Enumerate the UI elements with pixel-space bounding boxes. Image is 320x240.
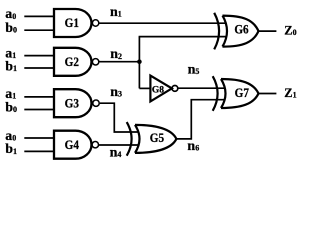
wire n2 vertical from G6 branch down to G8 branch bbox=[138, 37, 140, 89]
wire a1 to G2 bbox=[24, 55, 54, 57]
wire z0 output bbox=[259, 30, 277, 32]
svg-text:G3: G3 bbox=[65, 95, 80, 110]
svg-text:G8: G8 bbox=[152, 85, 164, 95]
wire n5 from G8 to G7 upper input bbox=[178, 87, 225, 89]
wire z1 output bbox=[259, 93, 277, 95]
XOR gate G7 bbox=[213, 76, 259, 111]
svg-text:G2: G2 bbox=[65, 54, 79, 69]
wire junction down to G8 input bbox=[139, 87, 150, 89]
wire a0 to G4 bbox=[24, 137, 54, 139]
wire b0 to G1 bbox=[24, 29, 54, 31]
junction dot on n2 bbox=[137, 59, 142, 64]
NAND gate G2 bbox=[54, 48, 99, 76]
svg-text:G5: G5 bbox=[150, 130, 165, 145]
NAND gate G3 bbox=[54, 89, 99, 117]
svg-text:G6: G6 bbox=[234, 21, 249, 36]
wire n6 from G5 output up to G7 lower input bbox=[176, 100, 224, 139]
wire n4 from G4 to G5 lower input bbox=[99, 144, 139, 146]
wire b0 to G3 bbox=[24, 109, 54, 111]
wire n3 from G3 right then down to G5 top input bbox=[100, 103, 139, 132]
NAND gate G1 bbox=[54, 9, 99, 37]
wire n2 from G2 to junction bbox=[99, 61, 139, 63]
svg-text:G7: G7 bbox=[235, 85, 250, 100]
NAND gate G4 bbox=[54, 131, 99, 159]
wire n1 from G1 to G6 upper input bbox=[99, 22, 226, 24]
wire b1 to G4 bbox=[24, 150, 54, 152]
svg-text:G1: G1 bbox=[65, 15, 79, 30]
inverter G8 bbox=[150, 76, 177, 102]
XOR gate G5 bbox=[127, 122, 177, 156]
svg-text:G4: G4 bbox=[65, 137, 80, 152]
wire a0 to G1 bbox=[24, 15, 54, 17]
XOR gate G6 bbox=[214, 13, 258, 50]
wire junction to G6 lower input bbox=[139, 36, 227, 38]
wire b1 to G2 bbox=[24, 67, 54, 69]
wire a1 to G3 bbox=[24, 96, 54, 98]
